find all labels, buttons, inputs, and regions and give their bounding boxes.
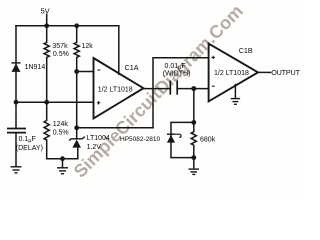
- svg-text:12k: 12k: [82, 43, 94, 50]
- wire bottom rail to + input: [16, 101, 94, 103]
- wire ground stub 680k: [193, 158, 195, 169]
- svg-text:HP5082-2810: HP5082-2810: [120, 136, 160, 143]
- svg-text:680k: 680k: [200, 137, 216, 144]
- svg-text:1N914: 1N914: [25, 64, 46, 71]
- svg-text:C1B: C1B: [239, 46, 253, 55]
- op-amp U2 C1B: [209, 44, 258, 102]
- wire C1A inverting input: [77, 71, 94, 73]
- wire supply drop to C1A: [118, 26, 120, 74]
- ground G2 (124k/LT1004): [57, 168, 68, 174]
- diode D1 1N914: [12, 62, 21, 72]
- node C diode/bottom rail: [14, 100, 19, 105]
- wire C1A output: [144, 88, 171, 90]
- ground G3 (680k): [189, 169, 200, 174]
- node F LT1004/feedback: [74, 125, 79, 130]
- svg-text:0.1µF: 0.1µF: [19, 136, 36, 144]
- svg-text:LT1004: LT1004: [87, 135, 110, 142]
- op-amp U1 minus sign: [97, 69, 100, 71]
- wire C1B ground stub: [234, 85, 236, 99]
- svg-text:5V: 5V: [41, 7, 50, 16]
- wire 124k/LT1004 ground link: [47, 147, 78, 158]
- op-amp U1 plus sign: [97, 101, 100, 104]
- svg-text:(DELAY): (DELAY): [16, 145, 43, 152]
- op-amp U2 plus sign: [212, 56, 215, 59]
- wire 680k loop: [171, 122, 194, 157]
- resistor R4 680k: [191, 122, 196, 157]
- node J gnd link: [60, 156, 65, 161]
- svg-text:357k: 357k: [52, 43, 68, 50]
- wire left vertical (1N914 branch): [15, 26, 17, 102]
- resistor R2 12k: [74, 26, 79, 72]
- svg-text:0.5%: 0.5%: [53, 129, 69, 136]
- node A 5V/357k: [44, 23, 49, 28]
- diode D3 HP5082-2810: [167, 134, 175, 143]
- node D 357k/124k: [44, 100, 49, 105]
- capacitor C2 0.1uF plates: [7, 129, 26, 133]
- svg-text:124k: 124k: [53, 121, 69, 128]
- ground G1 (delay cap): [11, 167, 22, 173]
- node 5V supply stub: [46, 15, 48, 26]
- wire cap to C1B inverting input: [177, 88, 208, 90]
- diode D2 LT1004 zener: [69, 137, 85, 141]
- svg-text:1.2V: 1.2V: [87, 144, 102, 151]
- node B rail/12k: [74, 23, 79, 28]
- capacitor C1 0.01uF plates: [170, 81, 177, 95]
- ground G4 (C1B): [231, 99, 240, 105]
- wire width-network drop: [193, 89, 195, 123]
- node H 680k top: [191, 120, 196, 125]
- svg-text:1/2 LT1018: 1/2 LT1018: [98, 86, 133, 93]
- node G cap/C1B - input: [191, 86, 196, 91]
- wire 12k down to LT1004 (crosses + rail): [76, 72, 78, 139]
- wire top rail: [16, 25, 119, 27]
- wire 0.1uF cap stem: [15, 102, 17, 128]
- wire C1B output: [258, 71, 271, 73]
- svg-text:0.5%: 0.5%: [53, 51, 69, 58]
- svg-text:C1A: C1A: [125, 63, 139, 72]
- resistor R3 124k: [44, 102, 49, 159]
- node E 12k/- input: [74, 69, 79, 74]
- svg-text:OUTPUT: OUTPUT: [271, 68, 300, 77]
- op-amp U1 C1A: [94, 58, 144, 118]
- node I 680k bottom: [191, 155, 196, 160]
- resistor R1 357k: [44, 26, 49, 102]
- svg-text:1/2 LT1018: 1/2 LT1018: [214, 70, 249, 77]
- wire ground stub 124k: [62, 159, 64, 168]
- op-amp U2 minus sign: [212, 85, 215, 87]
- wire LT1004 node to feedback: [77, 127, 153, 129]
- wire feedback vertical: [153, 58, 209, 128]
- svg-text:(WIDTH): (WIDTH): [163, 70, 191, 77]
